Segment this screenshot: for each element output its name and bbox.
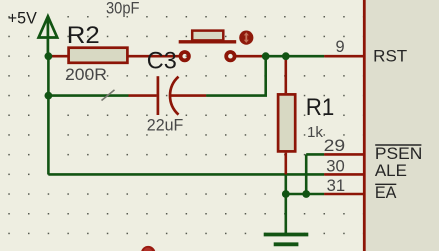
capacitor C3 right plate (curved) <box>170 77 178 115</box>
wire: R1 bottom to ground <box>284 174 287 234</box>
PSEN overline <box>375 144 421 146</box>
wire: bottom long wire to ALE pin 30 <box>48 173 324 176</box>
svg-text:1k: 1k <box>307 124 324 141</box>
junction node below +5V <box>45 52 53 60</box>
push button bar <box>179 40 237 43</box>
svg-text:22uF: 22uF <box>147 117 184 135</box>
wire: EA pin 31 to ground node <box>286 193 324 196</box>
resistor R2 leads <box>48 55 67 58</box>
junction node at C3 branch <box>45 92 53 100</box>
push button cap <box>192 31 223 41</box>
wire button right terminal to node <box>235 55 264 58</box>
U1 microcontroller body (right side) <box>366 0 439 251</box>
svg-text:30pF: 30pF <box>106 0 140 18</box>
capacitor C3 left lead <box>129 94 157 97</box>
resistor R1 bottom lead <box>284 153 287 175</box>
power symbol +5V <box>39 16 58 56</box>
EA overline <box>375 183 396 185</box>
junction node R1 top <box>282 52 290 60</box>
junction node pin29 net <box>302 190 310 198</box>
svg-text:R1: R1 <box>306 94 335 121</box>
wire: +5V rail down left side <box>47 56 50 174</box>
push button left terminal <box>181 52 189 60</box>
U1 pin 30 stub (ALE) <box>324 173 364 176</box>
wire: vertical pin29 to pin31 net <box>305 154 308 194</box>
svg-text:200R: 200R <box>65 66 107 84</box>
push button right terminal <box>226 52 234 60</box>
resistor R1 top lead <box>284 56 287 93</box>
svg-text:PSEN: PSEN <box>375 145 423 163</box>
svg-text:9: 9 <box>336 38 345 56</box>
actuator marker (cut off at bottom edge) <box>141 246 156 251</box>
junction node ground/EA <box>282 190 290 198</box>
wire: C3 right to button node <box>206 56 266 95</box>
capacitor C3 right lead <box>171 94 206 97</box>
svg-text:+5V: +5V <box>8 9 37 28</box>
U1 pin 31 stub (EA) <box>324 193 364 196</box>
wire: button node to RST pin 9 <box>264 55 325 58</box>
push button actuator <box>239 30 253 44</box>
svg-text:29: 29 <box>324 137 346 155</box>
U1 pin 29 stub (PSEN) <box>324 153 364 156</box>
U1 chip left edge <box>363 0 366 251</box>
resistor R2 body <box>69 48 128 63</box>
resistor R1 body <box>278 94 295 151</box>
U1 pin 9 stub (RST) <box>324 55 364 58</box>
svg-text:C3: C3 <box>147 47 177 74</box>
wire slash mark <box>102 90 115 101</box>
svg-text:EA: EA <box>375 184 397 202</box>
svg-text:30: 30 <box>326 157 345 175</box>
wire: junction to C3 left <box>48 94 128 97</box>
svg-text:R2: R2 <box>67 22 100 49</box>
wire: PSEN pin 29 stub to vertical <box>306 153 324 156</box>
svg-text:RST: RST <box>373 47 407 66</box>
capacitor C3 left plate <box>157 76 160 115</box>
svg-text:31: 31 <box>327 177 346 195</box>
junction node button/RST <box>262 52 270 60</box>
ground symbol <box>264 235 309 245</box>
svg-text:ALE: ALE <box>375 162 407 180</box>
